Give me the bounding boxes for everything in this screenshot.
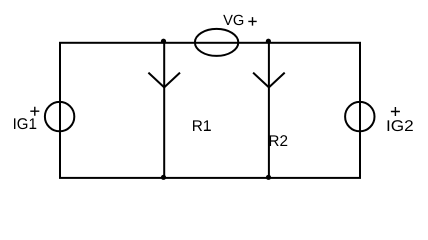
- svg-text:IG1: IG1: [13, 116, 37, 133]
- svg-text:VG: VG: [223, 13, 244, 29]
- svg-text:IG2: IG2: [386, 118, 414, 135]
- svg-text:R1: R1: [192, 118, 212, 135]
- svg-text:R2: R2: [268, 133, 288, 150]
